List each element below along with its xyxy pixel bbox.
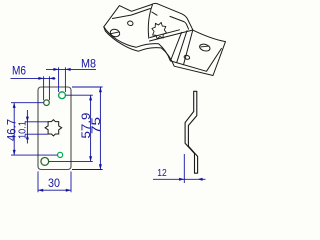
- svg-text:M6: M6: [12, 64, 26, 78]
- svg-text:75: 75: [89, 117, 103, 134]
- svg-text:30: 30: [48, 176, 60, 190]
- svg-text:M8: M8: [81, 56, 96, 70]
- svg-text:12: 12: [157, 168, 167, 179]
- svg-text:46.7: 46.7: [4, 119, 18, 141]
- svg-text:10.1: 10.1: [17, 121, 28, 139]
